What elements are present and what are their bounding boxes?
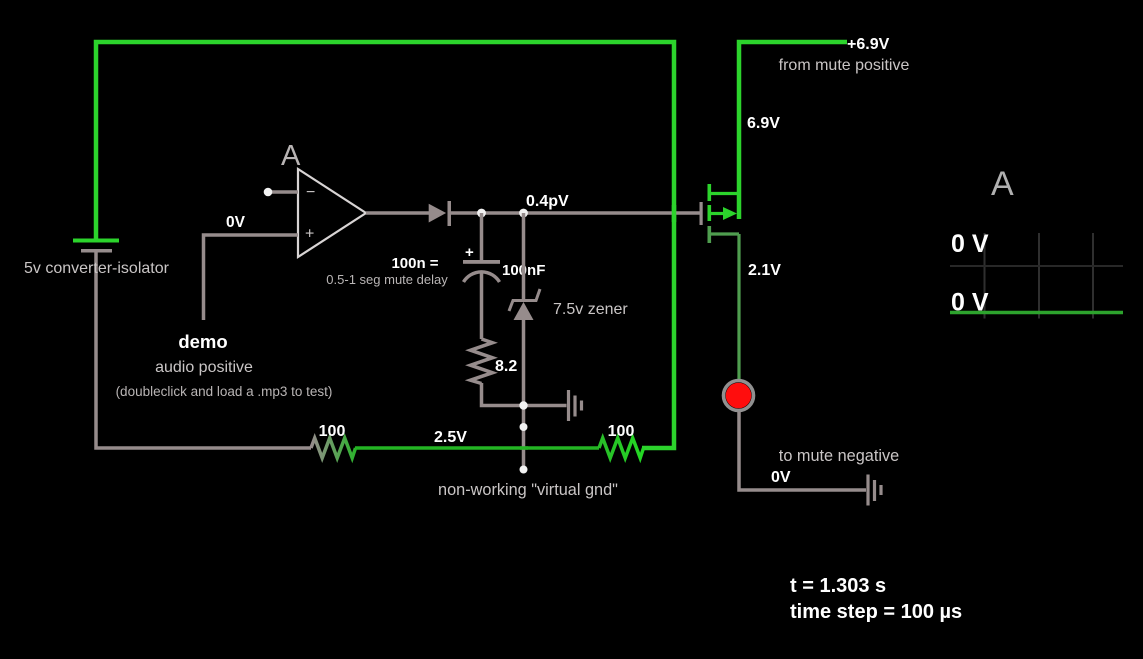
wire: right rail overlap patch at gate wire crossing (672, 205, 677, 222)
svg-text:100: 100 (319, 423, 346, 440)
wire: 2.5V net (green, bottom middle) (355, 446, 599, 450)
wire: battery positive up-left rail and top rail and right rail (green loop) (96, 42, 674, 448)
svg-text:100n =: 100n = (391, 255, 438, 272)
ground G2 (three bars) (868, 475, 881, 506)
wire: op-amp inverting input stub (268, 190, 298, 194)
op-amp U1 triangle (298, 169, 366, 257)
wire: LED cathode to ground (gray) (739, 412, 866, 491)
svg-text:demo: demo (178, 331, 227, 352)
mosfet Q1 gate bar (700, 202, 703, 225)
svg-text:100: 100 (608, 423, 635, 440)
capacitor C1 positive plate (463, 260, 500, 264)
mosfet Q1 source lead (711, 232, 739, 235)
node: junction at zener branch (519, 209, 528, 218)
svg-text:0.5-1 seg mute delay: 0.5-1 seg mute delay (326, 272, 448, 287)
zener diode Z1 triangle (514, 302, 534, 320)
resistor R3 8.2 (vertical) (471, 339, 493, 384)
node: virtual gnd post lower (white dot) (520, 466, 528, 474)
svg-text:from mute positive: from mute positive (779, 57, 910, 74)
svg-text:(doubleclick and load a .mp3 t: (doubleclick and load a .mp3 to test) (116, 384, 333, 399)
wire: 2.5V overlap patch at virtual gnd post crossing (520, 446, 528, 450)
mosfet Q1 channel bottom segment (source side) (708, 226, 712, 243)
svg-text:8.2: 8.2 (495, 358, 517, 375)
scope vertical gridline 3 (1092, 233, 1094, 319)
scope vertical gridline 2 (1038, 233, 1040, 319)
svg-text:audio positive: audio positive (155, 359, 253, 376)
svg-text:−: − (306, 184, 315, 201)
svg-text:7.5v zener: 7.5v zener (553, 301, 628, 318)
wire: +6.9V rail into mosfet drain (green) (739, 42, 847, 219)
mosfet Q1 channel top segment (drain side, green) (708, 184, 712, 201)
ground G1 (three bars) (569, 390, 582, 421)
svg-text:+: + (465, 244, 474, 261)
diode D1 triangle (429, 204, 446, 223)
wire: capacitor top lead (480, 213, 484, 260)
node: op-amp inverting input post (white dot) (264, 188, 273, 197)
diode D1 cathode bar (448, 201, 452, 226)
svg-text:A: A (991, 165, 1014, 203)
svg-text:0V: 0V (226, 214, 246, 231)
svg-text:non-working "virtual gnd": non-working "virtual gnd" (438, 481, 618, 499)
svg-text:6.9V: 6.9V (747, 115, 780, 132)
resistor R1 100 (left, gray-to-green) (311, 438, 356, 458)
svg-text:2.5V: 2.5V (434, 429, 467, 446)
resistor R2 100 (right, green) (599, 438, 644, 458)
LED D2 ring (724, 381, 754, 411)
scope channel 2 trace (green flat line) (950, 311, 1123, 315)
svg-text:0 V: 0 V (951, 230, 989, 258)
svg-text:0.4pV: 0.4pV (526, 193, 569, 210)
svg-text:+: + (305, 226, 314, 243)
wire: capacitor bottom lead to resistor 8.2 (480, 273, 484, 339)
wire: junction to ground symbol (524, 404, 567, 408)
svg-text:+6.9V: +6.9V (847, 36, 890, 53)
node: junction resistor/zener/ground (white dot) (519, 401, 527, 409)
scope horizontal center gridline (950, 265, 1123, 267)
mosfet Q1 body arrow line (711, 212, 726, 215)
wire: resistor 8.2 bottom to junction (482, 383, 524, 406)
wire: mosfet source down to LED (2.1V, mid green) (737, 234, 740, 380)
battery V1 positive plate (long, green) (73, 239, 119, 243)
wire: zener bottom lead to junction (522, 320, 526, 406)
mosfet Q1 channel middle segment (green) (708, 205, 712, 221)
mosfet Q1 body arrow head (723, 207, 737, 220)
wire: battery negative down and along bottom (gray) (96, 252, 311, 448)
svg-text:t = 1.303 s: t = 1.303 s (790, 575, 886, 597)
zener diode Z1 cathode bar with hooks (509, 289, 540, 311)
mosfet Q1 drain lead (711, 192, 739, 195)
svg-text:time step = 100 µs: time step = 100 µs (790, 601, 962, 623)
wire: diode to mosfet gate (gray, 0.4pV net) (451, 211, 700, 215)
wire: virtual ground post (vertical through 2.5V net) (522, 406, 526, 470)
battery V1 negative plate (short, gray) (81, 249, 112, 253)
node: junction at capacitor branch (477, 209, 486, 218)
capacitor C1 negative plate (arc) (464, 272, 500, 282)
LED D2 lit red body (726, 383, 752, 409)
svg-text:5v converter-isolator: 5v converter-isolator (24, 260, 170, 277)
wire: op-amp output to diode (gray) (366, 211, 429, 215)
scope vertical gridline 1 (984, 233, 986, 319)
node: virtual gnd post upper (white dot) (520, 423, 528, 431)
svg-text:A: A (281, 140, 301, 172)
wire: op-amp non-inverting input from audio source (204, 235, 299, 320)
svg-text:0V: 0V (771, 469, 791, 486)
svg-text:2.1V: 2.1V (748, 262, 781, 279)
wire: zener top lead (522, 213, 526, 300)
svg-text:to mute negative: to mute negative (779, 447, 899, 465)
